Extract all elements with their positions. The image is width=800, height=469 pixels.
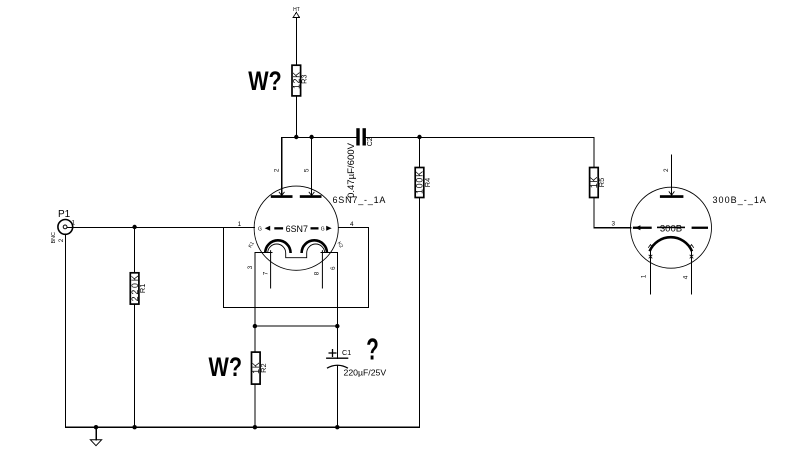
- 300B pin 1 connection marks: [648, 245, 653, 259]
- svg-text:P1: P1: [58, 209, 71, 220]
- svg-text:G: G: [258, 227, 262, 233]
- svg-text:4: 4: [682, 275, 689, 279]
- svg-text:300B_-_1A: 300B_-_1A: [713, 195, 768, 205]
- wire P1 down to ground rail: [65, 234, 67, 427]
- junction ground stub: [94, 425, 98, 429]
- wire pin5 drop: [311, 137, 313, 195]
- wire cathode rail: [255, 325, 337, 327]
- wire cathode left: [255, 252, 272, 326]
- svg-text:R4: R4: [423, 178, 432, 187]
- svg-text:5: 5: [304, 168, 311, 172]
- junction cathode / R2: [253, 324, 257, 328]
- wire P1 to 6SN7 grid pin1: [67, 226, 254, 228]
- svg-text:2: 2: [274, 168, 281, 172]
- 6SN7 grid dashes: [265, 226, 332, 231]
- connector P1 BNC: [58, 220, 73, 235]
- svg-text:0.47µF/600V: 0.47µF/600V: [346, 143, 356, 198]
- wire cathode right: [321, 252, 338, 326]
- 300B pin 4 connection marks: [689, 245, 694, 259]
- svg-text:6SN7: 6SN7: [286, 224, 308, 234]
- svg-text:3: 3: [612, 221, 616, 228]
- junction R2 bottom: [253, 425, 257, 429]
- resistor R2 body: [252, 352, 261, 384]
- junction cathode / C1: [335, 324, 339, 328]
- wire 300B plate stub: [671, 155, 673, 195]
- svg-text:R5: R5: [597, 178, 606, 187]
- svg-text:2: 2: [58, 238, 65, 242]
- svg-text:2: 2: [663, 168, 670, 172]
- svg-text:R2: R2: [259, 363, 268, 372]
- junction C1 bottom: [335, 425, 339, 429]
- capacitor C1 bottom plate arc: [327, 365, 348, 368]
- svg-text:6SN7_-_1A: 6SN7_-_1A: [333, 195, 387, 205]
- svg-text:1: 1: [72, 220, 76, 227]
- svg-text:1: 1: [640, 274, 647, 278]
- svg-text:4: 4: [350, 221, 354, 228]
- wire ground stub: [95, 427, 97, 440]
- junction R4 top: [417, 135, 421, 139]
- svg-text:8: 8: [313, 271, 320, 275]
- svg-text:220µF/25V: 220µF/25V: [344, 368, 387, 378]
- 300B plate bar (pin 2 anode): [660, 191, 684, 198]
- svg-text:W?: W?: [248, 65, 282, 96]
- wire main horizontal right segment: [366, 137, 594, 167]
- power flag HT arrow: [293, 12, 299, 17]
- svg-text:C1: C1: [342, 348, 351, 357]
- junction R1 bottom: [132, 425, 136, 429]
- 300B grid dashes: [633, 225, 708, 230]
- ground symbol: [90, 440, 101, 446]
- 6SN7 heater filament: [268, 244, 325, 258]
- 6SN7 plate bar right (pin 5 anode): [300, 192, 322, 198]
- wire R2 down: [254, 326, 256, 352]
- tube U1 6SN7 envelope: [254, 186, 338, 270]
- wire R1 branch: [134, 227, 136, 272]
- svg-text:BNC: BNC: [51, 232, 57, 243]
- svg-text:HT: HT: [293, 7, 300, 13]
- junction P1 / R1: [132, 225, 136, 229]
- 6SN7 heater pin 7 stub: [270, 250, 272, 288]
- resistor R4 body: [415, 168, 424, 198]
- 300B cathode filament arc: [650, 237, 692, 251]
- capacitor C1 plus sign: [329, 349, 337, 357]
- svg-text:?: ?: [366, 333, 379, 367]
- wire main horizontal left segment: [282, 137, 357, 195]
- svg-text:7: 7: [262, 271, 269, 275]
- svg-text:300B: 300B: [660, 223, 682, 233]
- 6SN7 heater pin 8 stub: [321, 250, 323, 288]
- tube U2 300B envelope: [631, 187, 712, 268]
- resistor R5 body: [590, 168, 599, 198]
- junction pin5 / plate node: [309, 135, 313, 139]
- junction R3 / plate node: [294, 135, 298, 139]
- svg-text:1: 1: [238, 221, 242, 228]
- svg-text:6: 6: [330, 266, 337, 270]
- svg-text:R1: R1: [138, 284, 147, 293]
- svg-text:3: 3: [247, 265, 254, 269]
- wire ground rail: [66, 426, 420, 428]
- svg-text:C2: C2: [367, 137, 374, 146]
- capacitor C2 plates: [356, 128, 366, 145]
- wire C1 branch: [336, 326, 338, 358]
- resistor R1 body: [130, 273, 139, 304]
- wire R4 down: [419, 137, 421, 167]
- wire 300B filament stubs: [650, 251, 652, 295]
- svg-text:R3: R3: [300, 74, 309, 83]
- wire grid loop: [224, 227, 369, 307]
- capacitor C1 top plate: [326, 357, 348, 359]
- wire power to R3: [295, 18, 297, 66]
- resistor R3 body: [292, 65, 301, 96]
- svg-text:G: G: [321, 227, 325, 233]
- wire R3 to main node: [295, 96, 297, 137]
- 6SN7 cathode arc right (K2): [302, 240, 327, 253]
- 6SN7 plate bar left (pin 2 anode): [271, 192, 293, 198]
- svg-text:W?: W?: [209, 351, 243, 382]
- 6SN7 cathode arc left (K1): [265, 240, 290, 253]
- wire R5 to 300B grid: [594, 198, 631, 228]
